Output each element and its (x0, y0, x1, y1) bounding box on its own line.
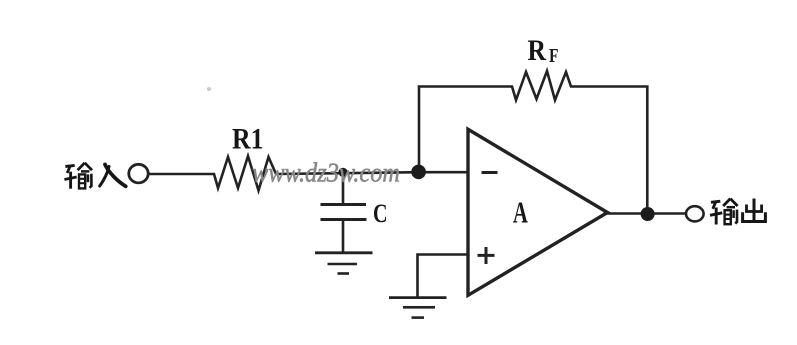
svg-text:R1: R1 (232, 123, 264, 156)
svg-text:A: A (513, 195, 528, 230)
svg-text:C: C (373, 199, 388, 228)
svg-text:www.dz3w.com: www.dz3w.com (252, 158, 400, 188)
svg-text:R: R (528, 34, 547, 67)
svg-text:F: F (549, 45, 559, 67)
